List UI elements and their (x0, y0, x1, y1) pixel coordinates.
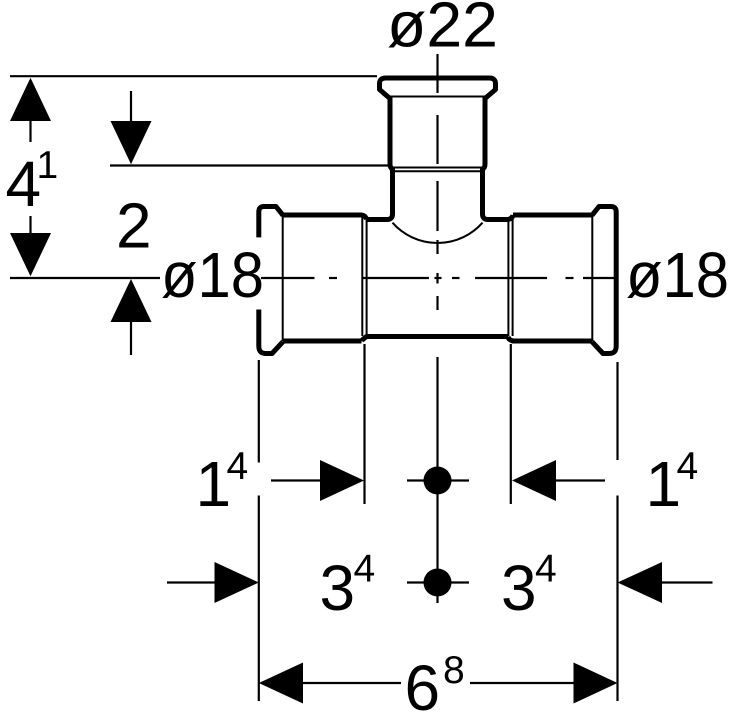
extension line right end (616, 362, 618, 701)
row1 arrow right pointing left (512, 460, 605, 501)
right socket top (513, 213, 592, 218)
left bead bottom (259, 310, 283, 354)
row1 arrow left pointing right (271, 460, 364, 501)
svg-text:ø18: ø18 (161, 239, 264, 311)
svg-text:2: 2 (116, 190, 152, 262)
fitting outline thick (259, 78, 616, 354)
left socket top (283, 215, 367, 220)
branch bead transition (387, 96, 488, 98)
dimension line top (tangent of fitting top) (10, 75, 377, 77)
crotch arc (393, 223, 483, 243)
branch bead (380, 78, 496, 99)
row2 centre dot (407, 569, 469, 597)
left socket step lines (361, 217, 363, 336)
svg-text:8: 8 (443, 649, 465, 692)
svg-text:3: 3 (320, 552, 356, 624)
svg-text:1: 1 (37, 144, 59, 187)
branch socket step lines (392, 167, 483, 169)
svg-text:ø22: ø22 (387, 0, 498, 61)
arrow down 2 (111, 91, 152, 164)
svg-text:4: 4 (535, 548, 557, 591)
row3 arrow right pointing right (470, 663, 618, 704)
svg-text:6: 6 (405, 652, 441, 712)
right socket step lines (507, 217, 509, 336)
body top left / branch left wall (367, 97, 393, 220)
left bead transition (282, 215, 284, 341)
svg-text:4: 4 (354, 548, 376, 591)
svg-text:4: 4 (227, 445, 249, 488)
horizontal centerline dash-dot (261, 277, 619, 279)
vertical centerline dash-dot (436, 54, 438, 310)
right bead transition (591, 215, 593, 341)
branch right wall / body top right (483, 97, 514, 220)
extension line centre below (436, 357, 438, 603)
arrow down 4-1 (10, 216, 51, 276)
dimension line axis left (10, 277, 160, 279)
svg-text:3: 3 (501, 552, 537, 624)
extension line right press depth (510, 344, 512, 504)
row3 arrow left pointing left (259, 663, 401, 704)
arrow up 4-1 (10, 78, 51, 142)
row1 centre dot (407, 467, 469, 495)
right bead (592, 207, 616, 354)
left socket bottom (283, 339, 362, 344)
body bottom (362, 337, 509, 342)
thin detail lines (283, 97, 593, 342)
svg-text:ø18: ø18 (626, 239, 729, 311)
left bead top (259, 207, 283, 238)
svg-text:4: 4 (677, 445, 699, 488)
row2 arrow right pointing left (618, 562, 713, 603)
row2 arrow left pointing right (167, 562, 259, 603)
extension line left press depth (363, 344, 365, 504)
dimension line socket depth (110, 164, 388, 166)
extension line left end (258, 360, 260, 701)
right socket bottom (508, 337, 592, 342)
arrow up 2 (111, 279, 152, 355)
